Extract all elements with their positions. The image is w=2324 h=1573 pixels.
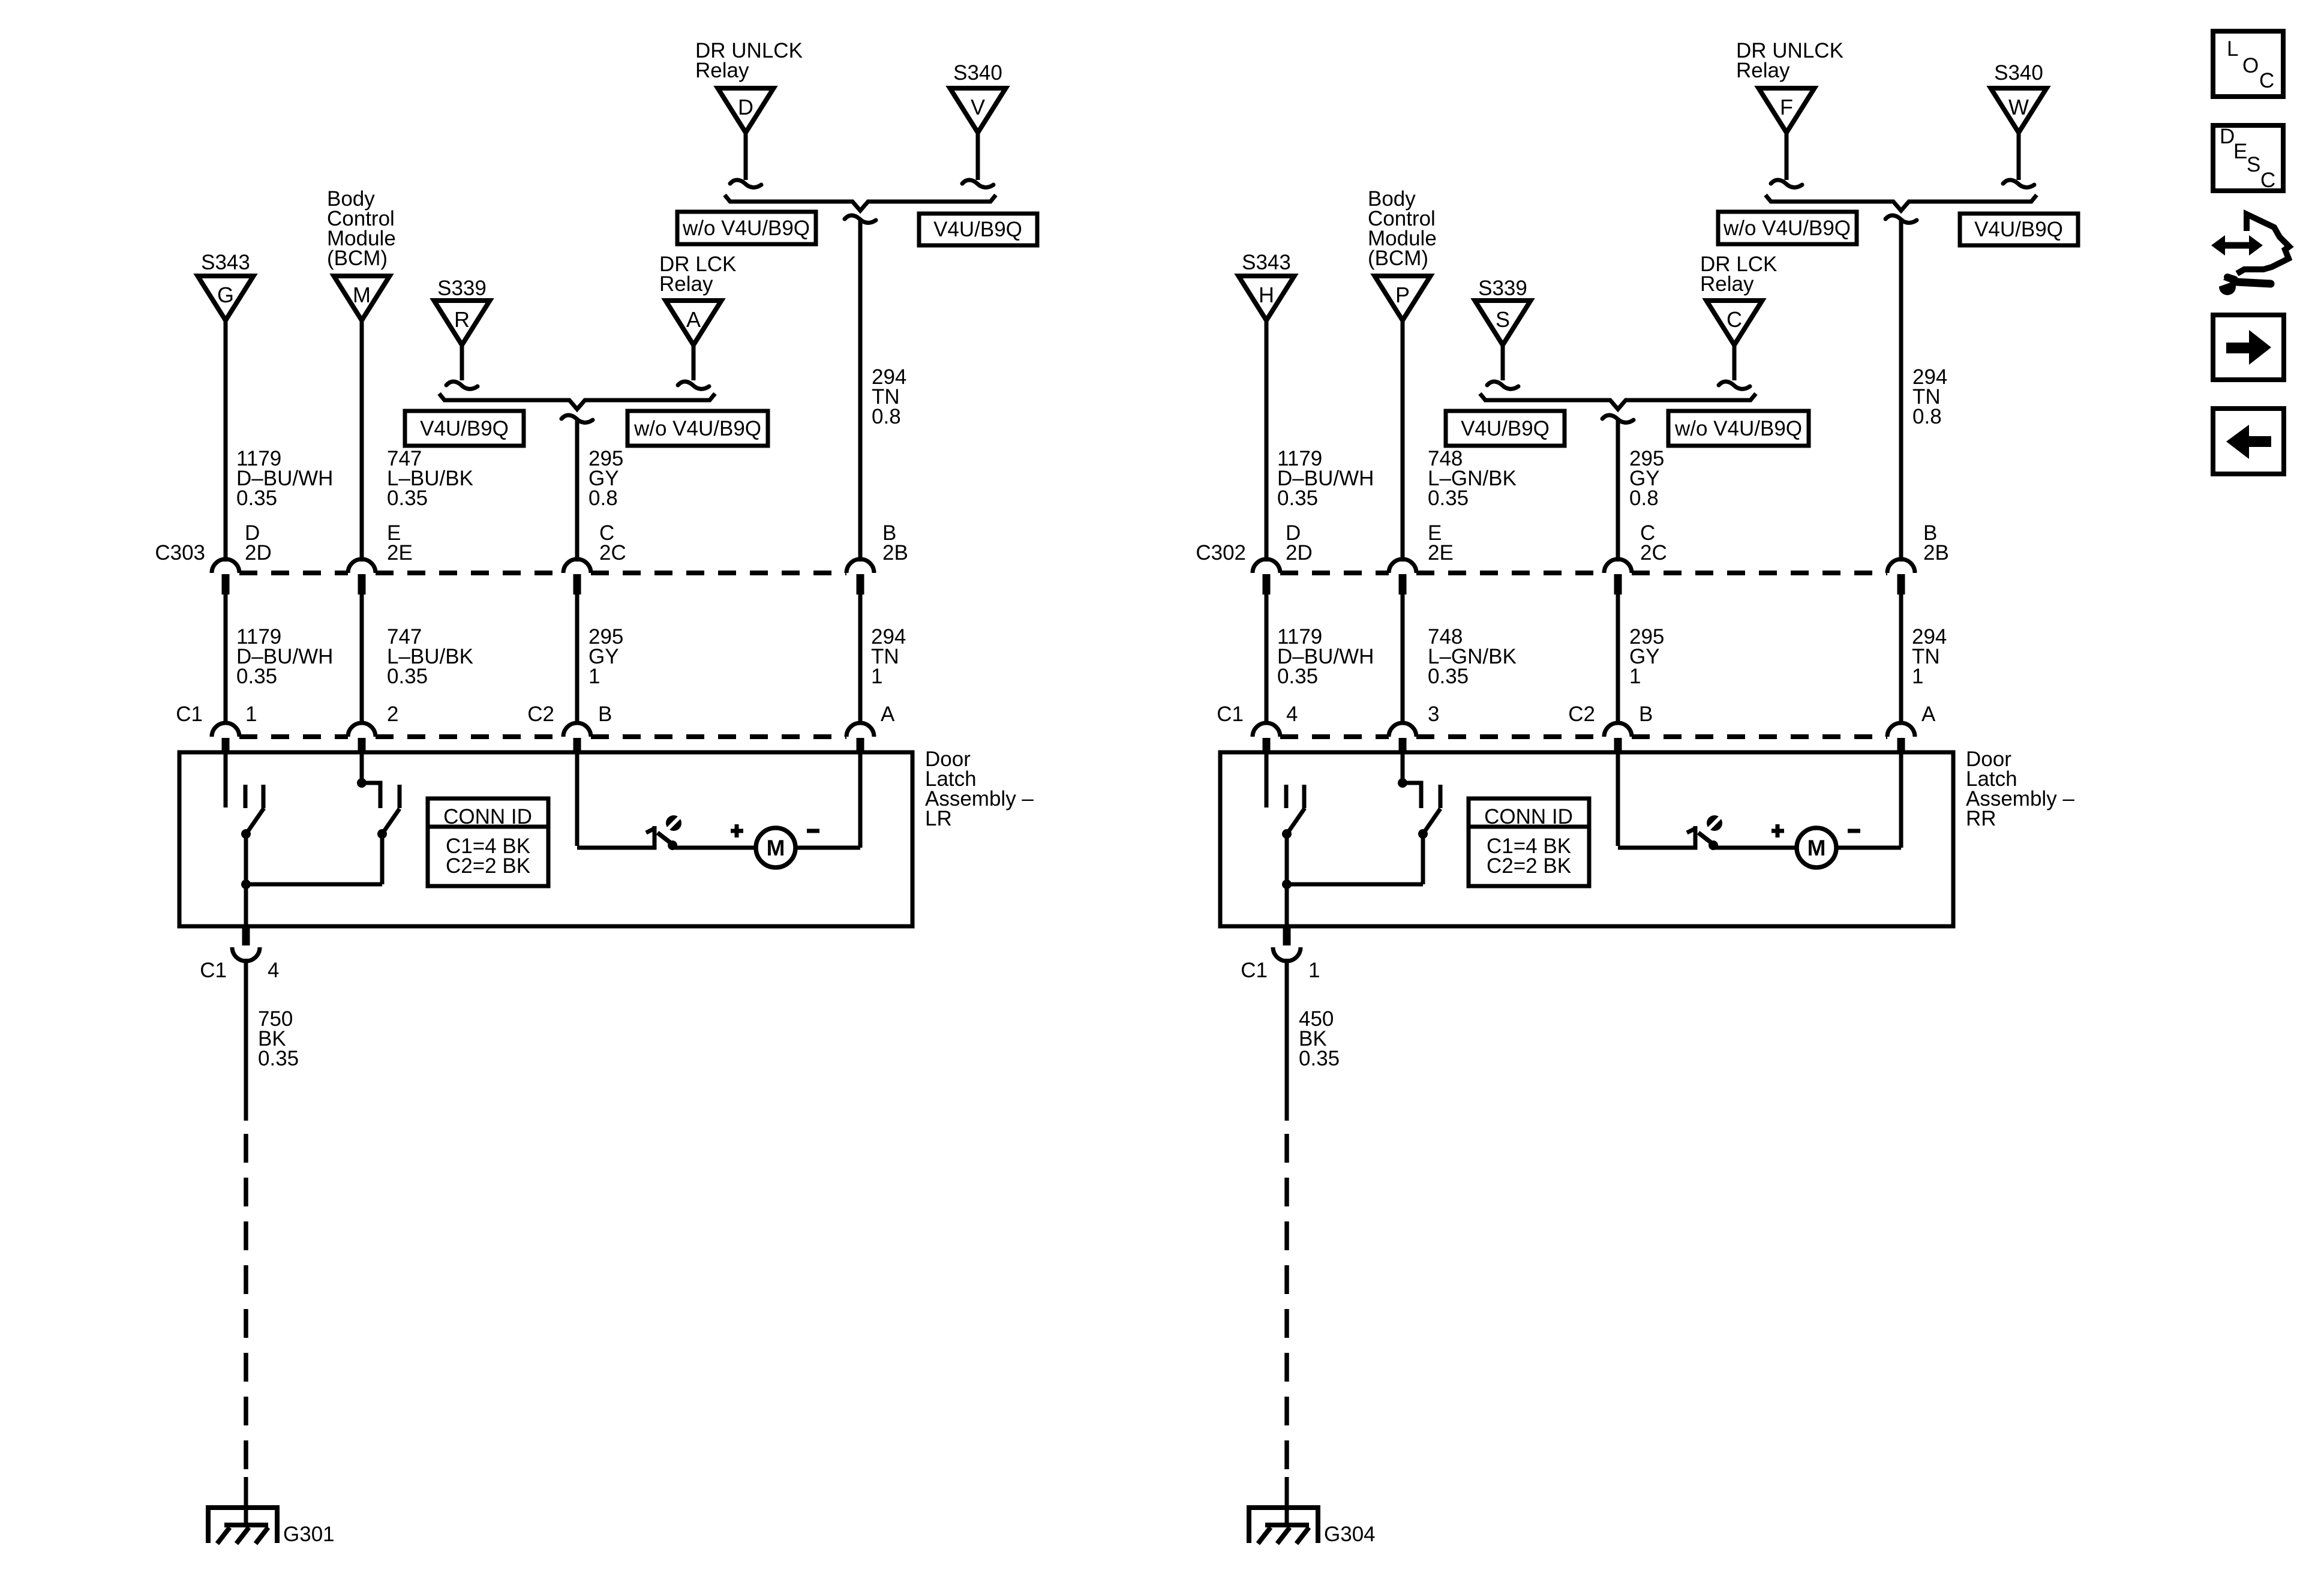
svg-text:748L–GN/BK0.35: 748L–GN/BK0.35 <box>1428 447 1517 510</box>
svg-text:w/o V4U/B9Q: w/o V4U/B9Q <box>1723 217 1851 240</box>
hook contact from pin 2 wire <box>362 783 380 808</box>
motor feed wire (pin B) <box>1616 752 1620 846</box>
svg-text:B: B <box>1639 703 1653 726</box>
svg-text:BodyControlModule(BCM): BodyControlModule(BCM) <box>1368 187 1437 270</box>
wire-end hook under DR UNLCK Relay <box>730 180 761 187</box>
svg-text:294TN1: 294TN1 <box>1912 625 1947 688</box>
motor polarity &#8722; mark <box>807 829 819 833</box>
svg-text:294TN1: 294TN1 <box>871 625 906 688</box>
svg-text:4: 4 <box>1286 703 1298 726</box>
wire junction to unlock switch <box>246 882 382 887</box>
motor switch node <box>1709 840 1718 850</box>
junction node <box>1282 879 1292 889</box>
ground wire 750 BK (solid run) <box>244 959 248 1121</box>
svg-text:D2D: D2D <box>245 521 272 565</box>
motor switch blade <box>1698 833 1712 843</box>
BCM source (triangle P) <box>1375 276 1431 320</box>
svg-text:1179D–BU/WH0.35: 1179D–BU/WH0.35 <box>1277 625 1374 688</box>
svg-text:S340: S340 <box>953 61 1002 85</box>
svg-text:P: P <box>1395 283 1410 307</box>
svg-text:D: D <box>2220 125 2235 148</box>
motor switch contact barb <box>1687 828 1695 833</box>
Door Latch Assembly RR box <box>1220 752 1953 926</box>
wire-end hook under S340 <box>962 180 993 187</box>
wire from BCM to connector C303 <box>360 320 364 562</box>
wire below S339 <box>460 344 464 380</box>
wire 295 GY 0.8 <box>575 421 580 562</box>
svg-text:B2B: B2B <box>882 521 908 565</box>
lock switch pivot node <box>1282 829 1292 839</box>
wire below DR LCK Relay <box>1733 344 1737 380</box>
svg-text:450BK0.35: 450BK0.35 <box>1299 1007 1340 1070</box>
lock switch input wire (pin 1) <box>224 752 228 807</box>
DR UNLCK Relay source (triangle D) <box>718 88 774 133</box>
svg-text:747L–BU/BK0.35: 747L–BU/BK0.35 <box>387 447 473 510</box>
svg-text:3: 3 <box>1428 703 1439 726</box>
option box V4U/B9Q (upper) <box>919 214 1037 245</box>
wire from lock switch to junction <box>244 834 248 926</box>
DR UNLCK Relay source (triangle F) <box>1759 88 1815 133</box>
svg-text:750BK0.35: 750BK0.35 <box>258 1007 299 1070</box>
svg-text:M: M <box>1807 836 1826 860</box>
motor M1 (door lock actuator) <box>1797 828 1836 867</box>
wire 295 (lower run) <box>575 595 580 722</box>
connector C303 pin stubs <box>222 574 230 595</box>
DESC icon box <box>2213 125 2283 191</box>
wire switch to motor <box>672 846 756 850</box>
door latch connector terminals (half-circle bumps) <box>1253 723 1280 737</box>
wire from S343 to connector C302 <box>1265 320 1269 562</box>
hook at start of wire 294 <box>845 215 876 223</box>
ground pin stub below box <box>242 926 250 945</box>
lock switch contacts <box>244 785 248 808</box>
motor switch adjuster (screw symbol) <box>666 815 681 831</box>
previous-page arrow icon box <box>2213 409 2284 474</box>
motor polarity &#8722; mark <box>1848 829 1860 833</box>
svg-text:S: S <box>1496 307 1510 332</box>
wire from S343 to connector C303 <box>224 320 228 562</box>
svg-text:R: R <box>454 307 470 332</box>
unlock switch contact <box>398 785 402 808</box>
svg-text:V4U/B9Q: V4U/B9Q <box>1461 417 1550 440</box>
svg-text:C1: C1 <box>200 959 227 982</box>
svg-text:w/o V4U/B9Q: w/o V4U/B9Q <box>1674 417 1802 440</box>
svg-text:G301: G301 <box>283 1523 335 1546</box>
svg-text:C2C: C2C <box>599 521 626 565</box>
svg-text:V4U/B9Q: V4U/B9Q <box>1974 218 2063 241</box>
unlock switch blade <box>382 809 400 834</box>
motor switch node <box>668 840 677 850</box>
svg-text:747L–BU/BK0.35: 747L–BU/BK0.35 <box>387 625 473 688</box>
door latch connector pin stubs <box>222 738 230 754</box>
connector-service icon (wrench) <box>2219 278 2236 295</box>
wire motor to pin A <box>795 846 860 850</box>
svg-text:294TN0.8: 294TN0.8 <box>1912 365 1947 428</box>
wire below S339 <box>1501 344 1505 380</box>
wire below DR UNLCK Relay <box>744 133 748 180</box>
svg-text:295GY1: 295GY1 <box>588 625 623 688</box>
hook at start of wire 295 <box>1602 415 1634 422</box>
motor switch blade <box>657 833 671 843</box>
lock switch blade <box>247 808 264 833</box>
connector-service icon (double arrow) <box>2223 242 2252 249</box>
wire from BCM to connector C302 <box>1401 320 1405 562</box>
option box w/o V4U/B9Q (lower) <box>627 411 768 446</box>
svg-text:S343: S343 <box>201 251 250 274</box>
option box w/o V4U/B9Q (upper) <box>677 212 816 244</box>
svg-text:C1=4 BKC2=2 BK: C1=4 BKC2=2 BK <box>1487 834 1571 878</box>
svg-text:C1=4 BKC2=2 BK: C1=4 BKC2=2 BK <box>446 834 530 878</box>
lock switch input wire (pin 4) <box>1265 752 1269 807</box>
svg-text:DR LCKRelay: DR LCKRelay <box>659 253 736 296</box>
door latch connector dashed line <box>239 734 348 739</box>
svg-text:w/o V4U/B9Q: w/o V4U/B9Q <box>633 417 761 440</box>
option split brace (DR UNLCK Relay / S340) <box>1765 195 2037 211</box>
svg-text:S: S <box>2247 153 2260 176</box>
svg-text:C1: C1 <box>1217 703 1244 726</box>
svg-text:C303: C303 <box>155 541 205 565</box>
hook at start of wire 295 <box>562 415 593 422</box>
option split brace (DR UNLCK Relay / S340) <box>725 195 996 211</box>
motor switch adjuster (screw symbol) <box>1707 815 1722 831</box>
svg-text:C: C <box>2259 69 2274 92</box>
unlock switch pivot node <box>377 829 387 839</box>
ground wire (dashed off-page run) <box>1284 1134 1289 1477</box>
svg-text:DoorLatchAssembly –LR: DoorLatchAssembly –LR <box>925 748 1034 830</box>
wire-end hook under DR LCK Relay <box>678 382 709 389</box>
svg-text:V4U/B9Q: V4U/B9Q <box>420 417 509 440</box>
wire 748 (lower run) <box>1401 595 1405 722</box>
svg-text:C2: C2 <box>1568 703 1595 726</box>
svg-text:C: C <box>1727 307 1742 332</box>
option box V4U/B9Q (lower) <box>1446 411 1565 446</box>
wire motor to pin A <box>1836 846 1901 850</box>
option split brace (S339 / DR LCK Relay) <box>439 394 715 409</box>
motor polarity + mark <box>731 829 743 833</box>
svg-text:DR UNLCKRelay: DR UNLCKRelay <box>1736 39 1843 82</box>
DR LCK Relay source (triangle C) <box>1707 301 1762 345</box>
svg-text:V: V <box>971 95 985 119</box>
svg-text:w/o V4U/B9Q: w/o V4U/B9Q <box>682 217 810 240</box>
wire switch to motor <box>1713 846 1797 850</box>
wire junction to unlock switch <box>1287 882 1423 887</box>
wire 294 (lower run) <box>858 595 863 722</box>
svg-text:CONN ID: CONN ID <box>443 805 532 828</box>
motor switch contact barb <box>646 828 654 833</box>
svg-text:E2E: E2E <box>1428 521 1454 565</box>
wire below DR LCK Relay <box>692 344 696 380</box>
svg-text:294TN0.8: 294TN0.8 <box>872 365 906 428</box>
svg-text:295GY0.8: 295GY0.8 <box>588 447 623 510</box>
motor M1 (door lock actuator) <box>756 828 795 867</box>
connector C302 pin stubs <box>1263 574 1271 595</box>
svg-text:H: H <box>1259 283 1274 307</box>
wire below S340 <box>976 133 980 180</box>
svg-text:DR UNLCKRelay: DR UNLCKRelay <box>695 39 803 82</box>
svg-text:BodyControlModule(BCM): BodyControlModule(BCM) <box>327 187 396 270</box>
svg-text:A: A <box>686 307 701 332</box>
svg-text:C1: C1 <box>1241 959 1268 982</box>
ground symbol G304 <box>1249 1508 1318 1543</box>
svg-text:4: 4 <box>268 959 279 982</box>
ground wire (dashed off-page run) <box>244 1134 248 1477</box>
lock switch contacts <box>1284 785 1289 808</box>
svg-text:E: E <box>2233 140 2247 163</box>
next-page arrow icon box <box>2213 315 2284 380</box>
ground wire (to ground point) <box>244 1477 248 1527</box>
inline connector C1 pin 1 (cup) <box>1273 947 1301 961</box>
door latch connector pin stubs <box>1263 738 1271 754</box>
connector C303 dashed line <box>239 571 348 575</box>
wire below DR UNLCK Relay <box>1785 133 1789 180</box>
svg-text:S339: S339 <box>437 277 487 300</box>
connector C302 dashed line <box>1280 571 1389 575</box>
connector C302 terminals (half-circle bumps) <box>1253 559 1280 573</box>
svg-text:D: D <box>738 95 753 119</box>
wire-end hook under S339 <box>1487 382 1518 389</box>
svg-text:V4U/B9Q: V4U/B9Q <box>933 218 1022 241</box>
Door Latch Assembly LR box <box>179 752 912 926</box>
connector C303 terminals (half-circle bumps) <box>212 559 239 573</box>
svg-text:S339: S339 <box>1478 277 1527 300</box>
svg-text:C1: C1 <box>176 703 203 726</box>
BCM source (triangle M) <box>334 276 390 320</box>
unlock switch pivot node <box>1418 829 1428 839</box>
wire-end hook under DR LCK Relay <box>1719 382 1750 389</box>
option box w/o V4U/B9Q (lower) <box>1668 411 1809 446</box>
wire 747 (lower run) <box>360 595 364 722</box>
svg-text:A: A <box>881 703 895 726</box>
wire 1179 (lower run) <box>1265 595 1269 722</box>
door latch connector dashed line <box>1280 734 1389 739</box>
svg-text:L: L <box>2227 37 2238 61</box>
svg-text:C: C <box>2260 169 2275 192</box>
svg-text:DR LCKRelay: DR LCKRelay <box>1700 253 1777 296</box>
junction node <box>241 879 251 889</box>
svg-text:D2D: D2D <box>1286 521 1313 565</box>
motor feed wire (pin B) <box>575 752 580 846</box>
svg-text:G304: G304 <box>1324 1523 1376 1546</box>
wire 294 (lower run) <box>1899 595 1903 722</box>
ground wire (to ground point) <box>1285 1477 1289 1527</box>
ground symbol G301 <box>208 1508 277 1543</box>
svg-text:1179D–BU/WH0.35: 1179D–BU/WH0.35 <box>236 625 333 688</box>
svg-text:O: O <box>2242 54 2259 77</box>
svg-text:A: A <box>1921 703 1936 726</box>
svg-text:C2: C2 <box>527 703 554 726</box>
svg-text:2: 2 <box>387 703 398 726</box>
lock switch blade <box>1287 808 1305 833</box>
svg-text:G: G <box>217 283 234 307</box>
wire below S340 <box>2017 133 2021 180</box>
option box V4U/B9Q (lower) <box>405 411 524 446</box>
svg-text:1: 1 <box>1308 959 1320 982</box>
svg-text:1179D–BU/WH0.35: 1179D–BU/WH0.35 <box>1277 447 1374 510</box>
svg-text:M: M <box>353 283 371 307</box>
svg-text:C302: C302 <box>1196 541 1246 565</box>
lock switch pivot node <box>241 829 251 839</box>
option box w/o V4U/B9Q (upper) <box>1718 212 1857 244</box>
CONN ID table <box>1469 798 1589 886</box>
svg-text:S343: S343 <box>1242 251 1291 274</box>
node on pin 3 wire <box>1398 778 1407 788</box>
wire-end hook under S339 <box>446 382 478 389</box>
option split brace (S339 / DR LCK Relay) <box>1480 394 1756 409</box>
wire-end hook under DR UNLCK Relay <box>1771 180 1802 187</box>
CONN ID table <box>428 798 548 886</box>
svg-text:DoorLatchAssembly –RR: DoorLatchAssembly –RR <box>1966 748 2074 830</box>
wire 295 (lower run) <box>1616 595 1620 722</box>
connector-service icon (connector outline) <box>2237 214 2289 274</box>
svg-text:F: F <box>1780 95 1793 119</box>
svg-text:1: 1 <box>245 703 257 726</box>
ground wire 450 BK (solid run) <box>1285 959 1289 1121</box>
option box V4U/B9Q (upper) <box>1960 214 2078 245</box>
wire 1179 (lower run) <box>224 595 228 722</box>
ground pin stub below box <box>1283 926 1291 945</box>
svg-text:S340: S340 <box>1994 61 2043 85</box>
unlock switch input wire (pin 3) <box>1401 752 1405 782</box>
wire 294 TN 0.8 <box>858 221 863 562</box>
wire from lock switch to junction <box>1285 834 1289 926</box>
svg-text:B: B <box>598 703 612 726</box>
unlock switch blade <box>1423 809 1440 834</box>
svg-text:295GY0.8: 295GY0.8 <box>1629 447 1664 510</box>
door latch connector terminals (half-circle bumps) <box>212 723 239 737</box>
svg-text:295GY1: 295GY1 <box>1629 625 1664 688</box>
hook at start of wire 294 <box>1885 215 1917 223</box>
svg-text:C2C: C2C <box>1640 521 1667 565</box>
svg-text:CONN ID: CONN ID <box>1484 805 1573 828</box>
hook contact from pin 3 wire <box>1403 783 1421 808</box>
svg-text:W: W <box>2008 95 2029 119</box>
node on pin 2 wire <box>357 778 367 788</box>
wire 295 GY 0.8 <box>1616 421 1620 562</box>
unlock switch contact <box>1439 785 1443 808</box>
svg-text:748L–GN/BK0.35: 748L–GN/BK0.35 <box>1428 625 1517 688</box>
LOC icon box <box>2213 31 2283 97</box>
DR LCK Relay source (triangle A) <box>666 301 722 345</box>
wire 294 TN 0.8 <box>1899 221 1903 562</box>
unlock switch input wire (pin 2) <box>360 752 364 782</box>
svg-text:B2B: B2B <box>1923 521 1949 565</box>
svg-text:1179D–BU/WH0.35: 1179D–BU/WH0.35 <box>236 447 333 510</box>
inline connector C1 pin 4 (cup) <box>232 947 260 961</box>
motor polarity + mark <box>1771 829 1784 833</box>
svg-text:M: M <box>767 836 785 860</box>
svg-text:E2E: E2E <box>387 521 413 565</box>
wire-end hook under S340 <box>2003 180 2034 187</box>
